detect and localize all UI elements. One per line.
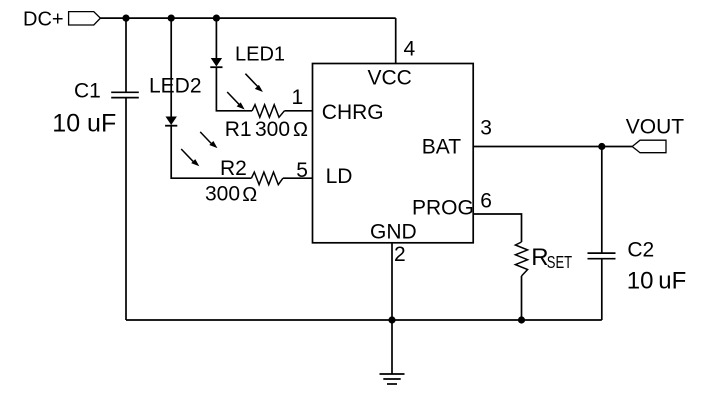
- svg-text:LED1: LED1: [235, 43, 285, 65]
- LED2 cathode bar: [165, 125, 177, 127]
- svg-text:4: 4: [404, 38, 416, 61]
- wire C1 top lead: [125, 18, 127, 92]
- wire bottom rail: [126, 319, 602, 321]
- junction node dot top LED2: [168, 15, 175, 22]
- svg-text:6: 6: [480, 190, 492, 213]
- svg-text:R2: R2: [220, 157, 247, 180]
- svg-text:C1: C1: [74, 80, 101, 103]
- wire LED2 top lead: [170, 18, 172, 117]
- resistor R1 zigzag: [252, 105, 284, 118]
- svg-text:LED2: LED2: [149, 75, 202, 98]
- wire pin 4 drop: [395, 18, 397, 63]
- svg-text:DC+: DC+: [23, 8, 64, 30]
- wire C2 bottom lead: [601, 259, 603, 320]
- wire pin 2 GND drop: [391, 243, 393, 320]
- resistor RSET zigzag: [515, 242, 527, 276]
- capacitor C1 plates: [111, 92, 139, 97]
- capacitor C2 plates: [588, 253, 616, 259]
- wire pin 3 BAT to VOUT: [473, 146, 632, 148]
- svg-text:SET: SET: [547, 253, 573, 272]
- junction node dot BAT/VOUT: [598, 143, 605, 150]
- junction node dot top C1: [122, 15, 129, 22]
- svg-text:10 uF: 10 uF: [52, 110, 116, 138]
- svg-text:3: 3: [480, 116, 492, 139]
- ground symbol: [380, 374, 405, 384]
- LED2 light arrow lower: [181, 149, 199, 166]
- connector DC+ flag: [69, 12, 101, 25]
- wire LED1 top lead: [215, 18, 217, 58]
- svg-text:Ω: Ω: [242, 184, 257, 206]
- svg-text:VOUT: VOUT: [626, 116, 685, 139]
- svg-text:CHRG: CHRG: [322, 101, 384, 124]
- svg-text:GND: GND: [370, 221, 417, 244]
- svg-text:2: 2: [394, 243, 406, 266]
- svg-text:C2: C2: [627, 238, 654, 261]
- svg-text:300: 300: [205, 183, 240, 206]
- svg-text:Ω: Ω: [293, 119, 308, 141]
- wire LED2 to R2: [171, 125, 251, 178]
- wire pin 6 PROG to RSET: [473, 214, 521, 242]
- svg-text:300: 300: [255, 118, 290, 141]
- connector VOUT flag: [632, 140, 666, 153]
- svg-text:10 uF: 10 uF: [627, 268, 687, 295]
- svg-text:PROG: PROG: [412, 197, 474, 220]
- junction node dot GND bottom: [388, 316, 395, 323]
- wire RSET bottom lead: [521, 276, 523, 320]
- resistor R2 zigzag: [251, 172, 283, 185]
- LED2 diode triangle: [166, 117, 177, 126]
- junction node dot RSET bottom: [518, 316, 525, 323]
- svg-text:R1: R1: [225, 118, 252, 141]
- wire C2 top lead: [601, 147, 603, 254]
- wire top rail DC+ to pin4: [100, 17, 395, 19]
- svg-text:VCC: VCC: [368, 66, 412, 89]
- wire C1 bottom lead: [125, 98, 127, 320]
- junction node dot top LED1: [213, 15, 220, 22]
- wire R2 to pin 5: [283, 177, 313, 179]
- svg-text:R: R: [531, 244, 548, 271]
- svg-text:5: 5: [296, 159, 308, 182]
- svg-text:1: 1: [292, 86, 304, 109]
- IC U1 body: [313, 64, 474, 243]
- LED2 light arrow upper: [200, 132, 217, 148]
- LED1 light arrow lower: [227, 92, 245, 110]
- wire ground lead: [391, 320, 393, 374]
- LED1 cathode bar: [210, 66, 222, 68]
- svg-text:BAT: BAT: [422, 136, 461, 159]
- LED1 light arrow upper: [245, 74, 263, 92]
- wire LED1 to R1: [216, 67, 252, 111]
- svg-text:LD: LD: [326, 165, 353, 188]
- wire R1 to pin 1: [284, 110, 312, 112]
- LED1 diode triangle: [211, 58, 222, 67]
